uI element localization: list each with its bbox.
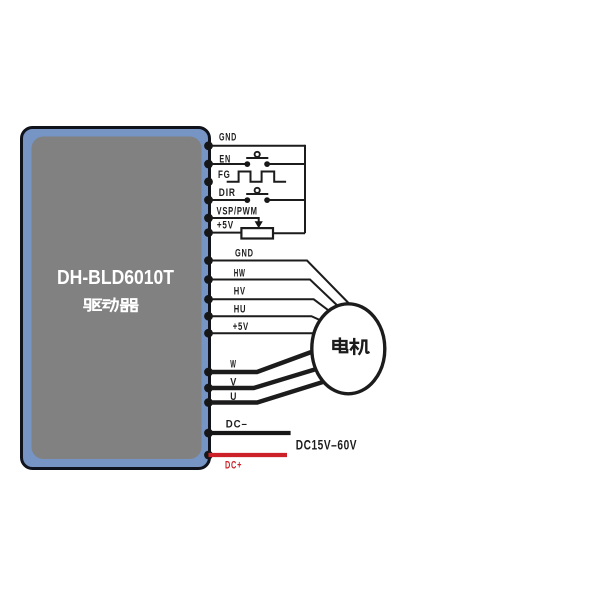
node EN terminal	[204, 160, 213, 169]
wire GND to common bus	[211, 145, 305, 147]
wire HW to motor	[211, 280, 341, 310]
node DC+ terminal	[204, 451, 213, 460]
svg-text:GND: GND	[235, 247, 254, 259]
motor M1 body	[312, 304, 385, 394]
node VSP/PWM terminal	[204, 214, 213, 223]
node HV terminal	[204, 295, 213, 304]
svg-text:DC–: DC–	[226, 418, 248, 430]
node GND terminal (hall)	[204, 256, 213, 265]
node GND terminal (signal)	[204, 141, 213, 150]
wire +5V to motor	[211, 332, 316, 334]
wire HV to motor	[211, 299, 334, 314]
node W terminal	[204, 368, 213, 377]
svg-text:HW: HW	[234, 268, 246, 280]
svg-text:VSP/PWM: VSP/PWM	[217, 205, 258, 217]
pushbutton switch S2 (DIR)	[244, 188, 270, 203]
node DIR terminal	[204, 196, 213, 205]
svg-text:GND: GND	[219, 132, 237, 144]
label 驱动器 glyph 动	[103, 298, 118, 311]
label 电机 (motor) glyph 电	[333, 339, 347, 353]
wire VSP/PWM to potentiometer wiper	[211, 218, 259, 222]
node DC- terminal	[204, 429, 213, 438]
potentiometer RP1 body	[241, 228, 273, 238]
wire EN left segment	[211, 163, 249, 165]
wire common bus vertical	[304, 145, 306, 233]
wire +5V to potentiometer	[211, 232, 241, 234]
svg-text:+5V: +5V	[217, 220, 234, 232]
FG pulse waveform	[227, 172, 286, 182]
pushbutton switch S1 (EN)	[244, 152, 270, 167]
driver module U1 body	[32, 137, 202, 460]
svg-text:FG: FG	[218, 169, 231, 181]
wire GND to motor	[211, 261, 349, 304]
svg-text:HV: HV	[234, 286, 246, 298]
svg-text:DC+: DC+	[225, 459, 242, 471]
svg-text:+5V: +5V	[233, 321, 249, 333]
node V terminal	[204, 384, 213, 393]
wire potentiometer to bus	[273, 232, 305, 234]
svg-text:DH-BLD6010T: DH-BLD6010T	[57, 267, 174, 289]
svg-text:W: W	[230, 358, 236, 370]
wire DIR right segment to bus	[266, 199, 306, 201]
node HU terminal	[204, 312, 213, 321]
node U terminal	[204, 398, 213, 407]
wire DC- supply	[209, 431, 291, 435]
node FG terminal	[204, 177, 213, 186]
svg-text:DIR: DIR	[219, 187, 236, 199]
node +5V terminal (hall supply)	[204, 329, 213, 338]
svg-text:DC15V–60V: DC15V–60V	[296, 436, 357, 452]
wire U phase to motor	[211, 381, 326, 403]
svg-text:HU: HU	[234, 304, 247, 316]
wire EN right segment to bus	[266, 163, 306, 165]
node +5V terminal (control)	[204, 228, 213, 237]
wire DIR left segment	[211, 199, 249, 201]
label 电机 glyph 机	[351, 339, 369, 354]
node HW terminal	[204, 275, 213, 284]
wire W phase to motor	[211, 351, 314, 372]
wire HU to motor	[211, 316, 322, 321]
label 驱动器 glyph 器	[121, 299, 138, 311]
wire V phase to motor	[211, 369, 318, 389]
label 驱动器 (driver) glyph 驱	[84, 299, 101, 311]
potentiometer wiper arrow	[255, 221, 263, 228]
wire DC+ supply (red)	[209, 453, 288, 457]
driver module U1 outer case	[22, 128, 210, 469]
